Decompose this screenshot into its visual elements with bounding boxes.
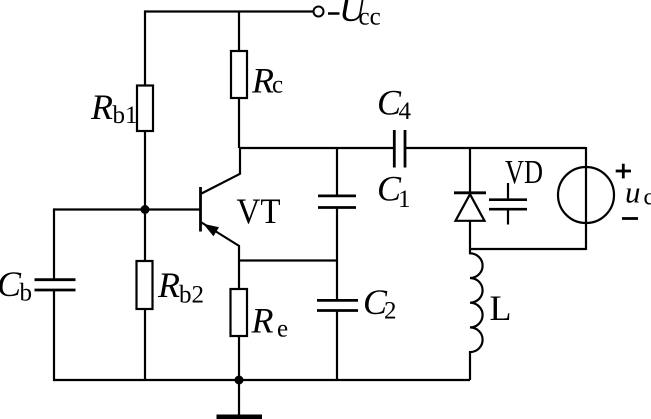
wire Rb2 upper bbox=[144, 210, 146, 262]
transistor VT bbox=[201, 148, 241, 289]
capacitor C1 bbox=[318, 196, 356, 208]
wire emitter junction bbox=[239, 259, 337, 261]
svg-text:VD: VD bbox=[505, 154, 543, 191]
node base junction bbox=[141, 205, 150, 214]
wire base bbox=[54, 208, 200, 210]
label Cb bbox=[0, 264, 32, 307]
diode VD bbox=[454, 193, 486, 221]
label C2 bbox=[363, 282, 397, 325]
svg-text:2: 2 bbox=[384, 298, 397, 325]
wire bottom rail bbox=[54, 379, 470, 381]
wire C1-C2 bbox=[336, 208, 338, 301]
label C1 bbox=[377, 169, 411, 214]
capacitor Cb bbox=[35, 280, 76, 290]
wire right vertical bbox=[585, 147, 587, 250]
wire Rc lower bbox=[238, 98, 240, 149]
svg-text:cc: cc bbox=[359, 4, 381, 31]
wire Rb2 lower bbox=[144, 309, 146, 381]
wire C1 stem bbox=[336, 148, 338, 195]
svg-text:R: R bbox=[251, 61, 274, 101]
label C4 bbox=[377, 83, 412, 126]
svg-text:c: c bbox=[272, 72, 283, 99]
terminal -Ucc bbox=[314, 7, 324, 17]
resistor Rc bbox=[231, 51, 247, 98]
wire VD stem upper bbox=[469, 148, 471, 193]
svg-text:b2: b2 bbox=[179, 282, 204, 309]
wire Rb1 lower bbox=[144, 131, 146, 210]
svg-text:R: R bbox=[251, 301, 274, 341]
minus sign bbox=[622, 217, 638, 220]
svg-text:4: 4 bbox=[399, 98, 412, 125]
source uc bbox=[558, 167, 614, 223]
svg-text:e: e bbox=[277, 316, 288, 343]
wire Cb lower bbox=[53, 290, 55, 381]
svg-text:c: c bbox=[644, 185, 651, 211]
svg-text:b1: b1 bbox=[113, 102, 138, 129]
svg-text:VT: VT bbox=[237, 191, 281, 231]
wire collector left bbox=[239, 147, 394, 149]
svg-text:u: u bbox=[625, 175, 641, 210]
wire C2 lower bbox=[336, 311, 338, 381]
resistor Rb1 bbox=[137, 86, 153, 132]
svg-text:L: L bbox=[490, 288, 512, 328]
resistor Re bbox=[231, 289, 248, 336]
ground bbox=[217, 380, 263, 419]
wire collector right bbox=[405, 147, 586, 149]
svg-text:1: 1 bbox=[398, 186, 411, 213]
capacitor C4 bbox=[394, 130, 405, 168]
inductor L bbox=[470, 249, 483, 380]
plus sign bbox=[616, 164, 631, 179]
label Rb2 bbox=[157, 265, 204, 309]
wire VD stem lower bbox=[469, 221, 471, 249]
label Re bbox=[251, 301, 289, 343]
capacitor C2 bbox=[317, 300, 358, 310]
wire Cb upper bbox=[53, 208, 55, 279]
label -Ucc bbox=[328, 0, 381, 31]
wire top rail bbox=[145, 10, 313, 12]
wire Rc upper bbox=[238, 12, 240, 52]
svg-text:b: b bbox=[20, 280, 33, 307]
label Rc bbox=[251, 61, 283, 101]
label Rb1 bbox=[90, 87, 138, 129]
svg-text:R: R bbox=[90, 87, 113, 127]
resistor Rb2 bbox=[137, 261, 153, 309]
varactor capacitor mark bbox=[489, 183, 527, 225]
node ground junction bbox=[235, 376, 244, 385]
svg-text:R: R bbox=[157, 265, 180, 305]
wire VD block bottom bbox=[470, 248, 586, 250]
wire Rb1 upper bbox=[144, 10, 146, 86]
label uc bbox=[625, 175, 651, 211]
wire Re lower bbox=[238, 336, 240, 380]
